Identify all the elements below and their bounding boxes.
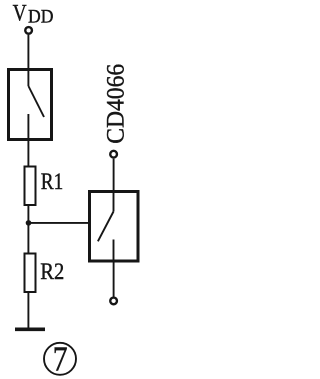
switch S2 bottom contact stub <box>113 240 115 262</box>
svg-text:R1: R1 <box>41 169 64 195</box>
switch S1 bottom contact stub <box>27 114 29 140</box>
wire VDD terminal to switch S1 <box>27 35 29 69</box>
wire switch S2 to bottom terminal <box>113 261 115 297</box>
svg-text:V: V <box>13 1 27 27</box>
resistor R1 body <box>25 167 36 206</box>
switch S2 top contact stub <box>113 191 115 212</box>
net VDD label <box>13 1 54 28</box>
wire resistor R1 to node A <box>27 205 29 253</box>
svg-text:CD4066: CD4066 <box>101 64 129 144</box>
wire top terminal to switch S2 <box>113 159 115 191</box>
switch S1 top contact stub <box>27 69 29 86</box>
svg-text:7: 7 <box>53 340 68 379</box>
figure number 7 circle <box>44 343 76 375</box>
switch S2 open arm (diagonal) <box>98 212 114 242</box>
node A junction dot <box>26 220 32 226</box>
wire node A to switch S2 <box>28 222 90 224</box>
terminal VDD <box>25 27 32 34</box>
wire resistor R2 to ground <box>27 292 29 329</box>
switch S1 open arm (diagonal) <box>28 86 44 117</box>
svg-text:R2: R2 <box>40 259 64 285</box>
svg-text:DD: DD <box>28 7 53 28</box>
resistor R2 body <box>25 254 36 293</box>
ground <box>15 327 45 331</box>
wire switch S1 to resistor R1 <box>27 140 29 166</box>
terminal control output bottom <box>110 298 117 305</box>
analog switch S2 box <box>90 192 139 262</box>
terminal control input top <box>110 151 117 158</box>
analog switch S1 box <box>9 70 52 140</box>
